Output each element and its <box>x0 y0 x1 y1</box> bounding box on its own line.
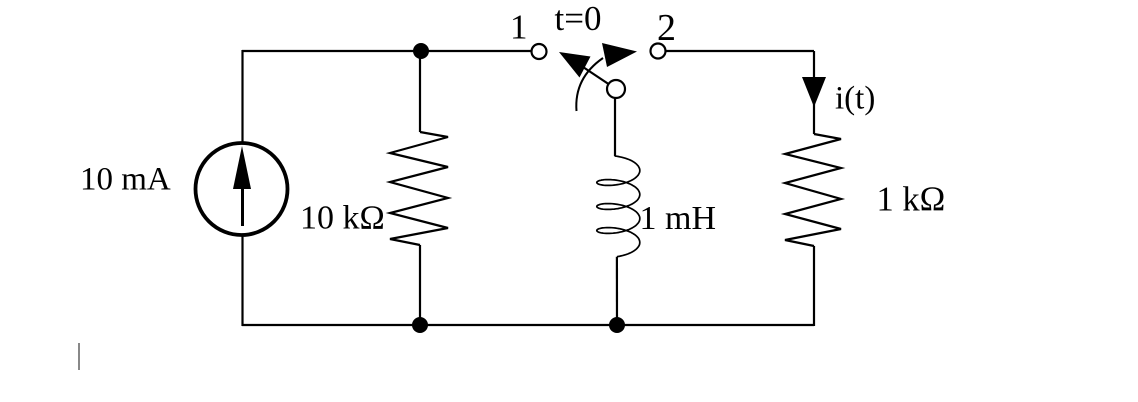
switch motion arc <box>576 58 603 111</box>
current arrow i(t) arrowhead <box>802 77 826 107</box>
wire left vertical upper <box>241 50 243 142</box>
svg-text:10 mA: 10 mA <box>80 162 171 198</box>
switch motion arrowhead <box>602 43 637 67</box>
svg-text:t=0: t=0 <box>555 0 602 38</box>
svg-text:10 kΩ: 10 kΩ <box>300 199 385 236</box>
current source I1 arrow shaft <box>241 180 244 226</box>
switch pole terminal circle <box>607 80 625 98</box>
wire right vertical upper <box>813 51 815 134</box>
terminal 1 open circle <box>532 44 547 59</box>
wire bottom horizontal <box>242 324 814 326</box>
wire inductor bottom lead <box>616 257 618 326</box>
switch blade line <box>580 65 613 87</box>
text cursor bar <box>78 343 80 370</box>
wire top-left horizontal <box>242 50 531 52</box>
svg-text:1 mH: 1 mH <box>640 200 717 237</box>
svg-text:1 kΩ: 1 kΩ <box>877 180 946 218</box>
resistor R2 1 kOhm zigzag <box>785 134 841 246</box>
terminal 2 open circle <box>651 44 666 59</box>
current source I1 circle <box>196 143 288 235</box>
wire resistor R1 top lead <box>419 51 421 132</box>
node dot top junction <box>413 43 429 59</box>
wire resistor R1 bottom lead <box>419 245 421 326</box>
inductor L1 coil <box>597 156 640 257</box>
wire left vertical lower <box>241 236 243 326</box>
wire right vertical lower <box>813 246 815 326</box>
svg-text:2: 2 <box>657 7 676 49</box>
current source I1 arrowhead <box>233 146 251 189</box>
wire top-right horizontal <box>666 50 814 52</box>
node dot bottom junction B <box>609 317 625 333</box>
switch blade arrowhead <box>559 52 591 78</box>
node dot bottom junction A <box>412 317 428 333</box>
svg-text:i(t): i(t) <box>835 81 875 117</box>
wire switch pole to inductor <box>614 98 616 156</box>
resistor R1 10 kOhm zigzag <box>390 132 448 245</box>
svg-text:1: 1 <box>510 8 528 47</box>
